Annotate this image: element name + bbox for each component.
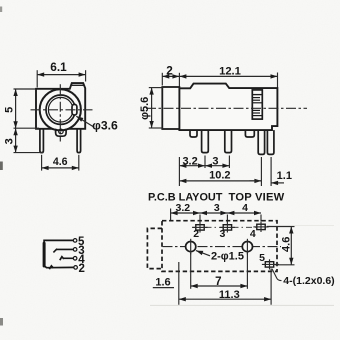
- pcb layout: extension lines 11.3: [178, 262, 180, 305]
- side view: extension lines 3.2 / 3: [204, 156, 206, 169]
- scan artifact: faint bottom smudge line: [150, 304, 334, 306]
- side view: dim line 10.2: [179, 180, 261, 182]
- pcb layout: pad 4: [257, 224, 265, 229]
- pcb layout: pad 2: [196, 225, 204, 230]
- pcb layout: pad row construction line: [192, 226, 268, 228]
- schematic: sleeve bar: [43, 243, 46, 266]
- front view: right leg: [77, 129, 81, 153]
- side view: barrel (phi 5.6 bushing): [162, 87, 179, 129]
- front view: notch inner line: [72, 84, 84, 86]
- svg-text:3.2: 3.2: [175, 202, 190, 214]
- svg-text:11.3: 11.3: [219, 289, 240, 301]
- side view: pin 2 (long): [225, 130, 232, 153]
- pcb layout: hole 1 (phi 1.5): [186, 242, 196, 252]
- pcb layout: extension lines top dims: [170, 209, 172, 222]
- front view: left vertical dim line (5 and 3): [15, 89, 17, 153]
- svg-text:4-(1.2x0.6): 4-(1.2x0.6): [283, 275, 334, 287]
- pcb layout: dim 7: [191, 285, 248, 287]
- side view: horizontal centerline: [146, 107, 307, 109]
- svg-text:7: 7: [215, 276, 221, 288]
- front view: extension lines 4.6: [41, 155, 43, 171]
- svg-text:φ3.6: φ3.6: [92, 118, 118, 132]
- front view: phi3.6 leader line: [76, 116, 94, 127]
- front view: extension lines left dims: [14, 88, 37, 90]
- pcb layout: pad 5: [265, 262, 273, 267]
- svg-text:2: 2: [193, 228, 199, 240]
- pcb layout: pad 3: [223, 225, 231, 230]
- schematic: pin 4 terminal circle: [73, 257, 77, 261]
- front view: horizontal centerline: [31, 109, 93, 111]
- svg-text:3: 3: [3, 138, 15, 144]
- side view: lower chain dim line 3.2 / 3: [179, 165, 229, 167]
- svg-text:φ5.6: φ5.6: [139, 97, 151, 120]
- front view: dim line 6.1: [37, 74, 85, 76]
- side view: pin 1 (long): [202, 130, 209, 153]
- svg-text:5: 5: [259, 252, 265, 264]
- side view: top dim line (2 and 12.1): [162, 75, 277, 77]
- schematic: pin 2 terminal circle: [74, 266, 78, 270]
- pcb layout: leader 2-phi1.5: [196, 251, 210, 256]
- front view: dim line 4.6: [42, 167, 79, 169]
- pcb layout: hole 2 (phi 1.5): [242, 242, 252, 252]
- side view: pin stub 2: [245, 130, 254, 137]
- svg-text:6.1: 6.1: [50, 60, 67, 74]
- side view: pin stub 1: [190, 130, 197, 137]
- svg-text:1.1: 1.1: [277, 170, 292, 182]
- front view: inner ring outer circle: [46, 95, 75, 124]
- svg-text:12.1: 12.1: [219, 65, 241, 77]
- pcb layout: barrel tab outline (dashed): [147, 228, 162, 268]
- pcb layout: dim 11.3: [179, 298, 271, 300]
- svg-text:10.2: 10.2: [209, 170, 230, 182]
- side view: body outline: [179, 84, 277, 131]
- front view: inner ring inner circle (phi 3.6 opening): [48, 97, 73, 122]
- pcb layout: extension lines 7: [190, 253, 192, 289]
- svg-text:2-φ1.5: 2-φ1.5: [211, 251, 244, 263]
- schematic: wire to pin 3 with switch tick: [53, 249, 57, 253]
- pcb layout: horizontal centerline: [163, 246, 282, 248]
- pcb layout: leader 4-(1.2x0.6): [272, 269, 282, 281]
- front view: outer circle (mounting ring): [40, 89, 81, 130]
- front view: tip contact oval: [72, 104, 77, 115]
- schematic: pin 3 terminal circle: [73, 248, 77, 252]
- schematic: wire to pin 2 with contact hook: [45, 266, 74, 268]
- side view: extension lines phi5.6: [149, 87, 163, 89]
- svg-text:4.6: 4.6: [53, 156, 68, 168]
- svg-text:4: 4: [250, 228, 256, 240]
- svg-text:5: 5: [3, 107, 15, 113]
- side view: switch contact stack: [252, 90, 262, 119]
- schematic: pin 5 terminal circle: [73, 239, 77, 243]
- side view: extension line left shared (3.2 / 10.2): [178, 157, 180, 186]
- front view: left leg: [40, 129, 44, 153]
- svg-text:3: 3: [219, 228, 225, 240]
- scan artifact: left edge marks: [0, 7, 2, 13]
- side view: extension lines top dims: [161, 73, 163, 86]
- schematic: wire to pin 5: [44, 240, 73, 243]
- svg-text:2: 2: [78, 263, 84, 275]
- side view: pin 3 (long): [258, 130, 264, 154]
- svg-text:4: 4: [242, 202, 248, 214]
- front view: bottom locating bump: [56, 129, 67, 136]
- pcb layout: line under 1.6: [153, 287, 174, 289]
- svg-text:1.6: 1.6: [155, 276, 170, 288]
- pcb layout: component outline (dashed): [162, 221, 277, 272]
- front view: body outline: [36, 83, 85, 129]
- side view: phi5.6 dim line: [151, 88, 153, 128]
- front view: vertical centerline: [59, 84, 61, 141]
- side view: dim 1.1 outside arrows: [260, 157, 262, 186]
- svg-text:3: 3: [214, 202, 220, 214]
- pcb layout: dim 4.6 vertical: [290, 227, 292, 265]
- front view: extension lines for 6.1: [36, 70, 38, 87]
- pcb layout: extension lines 4.6: [267, 226, 295, 228]
- svg-text:4.6: 4.6: [281, 237, 293, 252]
- svg-text:TOP VIEW: TOP VIEW: [229, 191, 285, 203]
- schematic: wire to pin 4 with contact hook: [60, 257, 64, 261]
- side view: pin 4 (long): [267, 130, 274, 154]
- pcb layout: top chain dim line 3.2 / 3 / 4: [171, 212, 261, 214]
